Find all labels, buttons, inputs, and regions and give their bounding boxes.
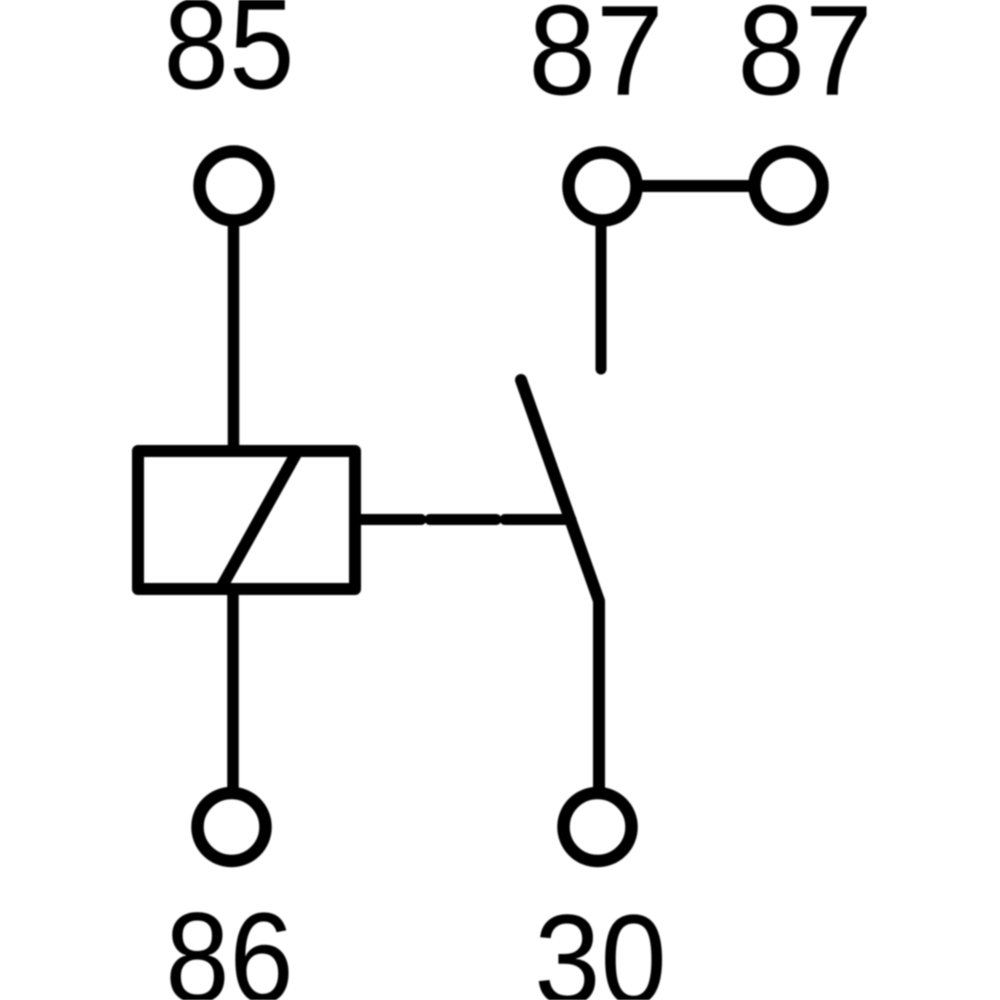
- relay coil K1: [138, 451, 355, 589]
- terminal 85: [200, 152, 269, 221]
- terminal 87 (left): [569, 153, 637, 221]
- svg-text:87: 87: [737, 0, 872, 122]
- terminal 86: [198, 793, 266, 861]
- terminal 87 (right): [755, 152, 823, 220]
- terminal label 87 (right): [737, 0, 872, 122]
- svg-text:86: 86: [165, 886, 293, 1000]
- wire: terminal 85 to coil top: [228, 186, 240, 451]
- terminal label 85: [164, 0, 295, 117]
- mechanical linkage (dashed actuator line): [355, 514, 571, 525]
- switch contact blade (movable arm): [521, 380, 599, 827]
- wire: stub below terminal 87 (fixed contact): [596, 186, 607, 369]
- terminal label 87 (left): [528, 0, 663, 122]
- svg-text:87: 87: [528, 0, 663, 122]
- svg-text:30: 30: [534, 889, 666, 1000]
- terminal 30: [564, 793, 632, 861]
- wire: coil bottom to terminal 86: [227, 589, 239, 827]
- wire: link between terminals 87 and 87: [602, 180, 789, 192]
- terminal label 30: [534, 889, 666, 1000]
- svg-text:85: 85: [164, 0, 295, 117]
- terminal label 86: [165, 886, 293, 1000]
